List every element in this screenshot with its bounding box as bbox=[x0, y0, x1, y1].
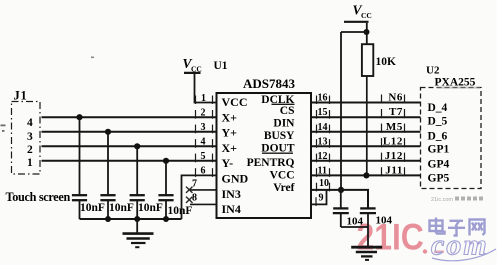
svg-text:DIN: DIN bbox=[273, 117, 295, 129]
svg-text:VCC: VCC bbox=[270, 169, 295, 181]
wire J1.4 to U1 pin2 (X+) bbox=[42, 116, 217, 118]
net label tick marks near U2 bbox=[382, 95, 405, 177]
svg-text:GP5: GP5 bbox=[428, 173, 450, 185]
wire U1.12 DOUT to U2 bbox=[311, 160, 421, 162]
svg-text:J1: J1 bbox=[14, 89, 28, 103]
svg-text:J12: J12 bbox=[385, 150, 403, 162]
svg-text:IN4: IN4 bbox=[222, 202, 241, 216]
junction dot wire1/C4 bbox=[163, 158, 169, 164]
scan speck bbox=[91, 57, 94, 59]
ground symbol left bbox=[123, 219, 154, 247]
svg-text:GP4: GP4 bbox=[428, 159, 450, 171]
svg-text:Touch screen: Touch screen bbox=[6, 190, 71, 204]
svg-text:T7: T7 bbox=[389, 106, 403, 118]
ground symbol right bbox=[351, 247, 382, 260]
svg-text:VCC: VCC bbox=[222, 95, 248, 109]
svg-text:N6: N6 bbox=[388, 92, 403, 104]
capacitor C5 104 bbox=[333, 190, 349, 227]
capacitor C3 10nF bbox=[130, 146, 145, 219]
svg-text:104: 104 bbox=[347, 216, 364, 228]
svg-text:5: 5 bbox=[201, 151, 206, 162]
wire U1.14 DIN to U2 bbox=[311, 131, 421, 133]
svg-text:14: 14 bbox=[318, 122, 328, 133]
op chip U1 ADS7843 box bbox=[217, 93, 312, 218]
svg-text:GP1: GP1 bbox=[428, 144, 450, 156]
wire vertical VCC to pin10 bbox=[340, 32, 342, 190]
svg-text:4: 4 bbox=[27, 117, 33, 129]
svg-text:D_6: D_6 bbox=[428, 130, 448, 142]
wire VCC branch to left bbox=[341, 31, 367, 33]
wire U1 pin6 GND to rail bbox=[182, 175, 217, 219]
watermark 网 character bbox=[470, 220, 485, 236]
svg-text:10nF: 10nF bbox=[80, 202, 105, 214]
wire U1.16 DCLK to U2 bbox=[311, 102, 421, 104]
svg-text:10nF: 10nF bbox=[138, 202, 163, 214]
capacitor C4 10nF bbox=[158, 161, 173, 219]
svg-text:10K: 10K bbox=[376, 56, 397, 68]
svg-text:21ic.com: 21ic.com bbox=[431, 197, 453, 203]
svg-text:M5: M5 bbox=[386, 121, 403, 133]
svg-text:11: 11 bbox=[318, 165, 327, 176]
stray scan mark left edge bbox=[1, 125, 6, 132]
svg-text:1: 1 bbox=[27, 157, 33, 169]
faint watermark echo under PXA255 bbox=[437, 87, 480, 89]
svg-text:CS: CS bbox=[280, 105, 295, 117]
svg-text:IN3: IN3 bbox=[222, 187, 241, 201]
wire VCC to U1 pin1 bbox=[195, 74, 217, 103]
connector J1 dashed box bbox=[12, 102, 41, 175]
svg-text:104: 104 bbox=[376, 215, 393, 227]
U1 right pin number ticks bbox=[316, 96, 330, 206]
svg-text:J11: J11 bbox=[385, 164, 403, 176]
junction dot wire4/C1 bbox=[76, 114, 82, 120]
wire J1.1 to U1 pin5 (Y-) bbox=[42, 160, 217, 162]
rail junction dot 1 bbox=[105, 216, 111, 222]
rail junction dot 2 bbox=[134, 216, 140, 222]
svg-text:13: 13 bbox=[318, 136, 328, 147]
svg-text:Y+: Y+ bbox=[222, 126, 238, 140]
svg-text:D_4: D_4 bbox=[428, 102, 448, 114]
capacitor C1 10nF bbox=[72, 117, 87, 219]
svg-text:3: 3 bbox=[27, 131, 33, 143]
watermark 子 character bbox=[448, 221, 465, 236]
svg-text:4: 4 bbox=[201, 137, 206, 148]
svg-text:10nF: 10nF bbox=[168, 205, 193, 217]
svg-text:8: 8 bbox=[192, 193, 197, 204]
junction dot VCC line / pin10 wire bbox=[338, 187, 344, 193]
power VCC left symbol bbox=[183, 56, 202, 74]
svg-text:D_5: D_5 bbox=[428, 116, 448, 128]
wire U1.10 VCC bbox=[311, 190, 368, 209]
svg-text:ADS7843: ADS7843 bbox=[243, 76, 296, 91]
chip U2 PXA255 dashed box bbox=[421, 88, 482, 189]
svg-text:X+: X+ bbox=[222, 110, 238, 124]
resistor R1 10K bbox=[362, 44, 373, 76]
wire resistor bottom to pin11 bbox=[366, 76, 368, 175]
wire cap bottoms link bbox=[341, 226, 368, 228]
watermark .com script bbox=[423, 249, 427, 253]
svg-text:Vref: Vref bbox=[273, 182, 294, 194]
svg-text:PENTRQ: PENTRQ bbox=[247, 157, 295, 169]
svg-text:6: 6 bbox=[201, 166, 206, 177]
svg-text:X+: X+ bbox=[222, 141, 238, 155]
junction dot wire2/C3 bbox=[134, 143, 140, 149]
svg-text:3: 3 bbox=[201, 122, 206, 133]
junction dot VCC branch bbox=[364, 29, 370, 35]
watermark 电 character bbox=[430, 218, 445, 234]
wire U1.13 BUSY to U2 bbox=[311, 145, 421, 147]
svg-text:Y-: Y- bbox=[222, 156, 234, 170]
wire J1.3 to U1 pin3 (Y+) bbox=[42, 131, 217, 133]
U1 left pin number ticks bbox=[196, 96, 213, 177]
svg-text:BUSY: BUSY bbox=[264, 130, 295, 142]
wire U1.9 Vref tie to VCC bbox=[311, 190, 327, 205]
ground rail wire bbox=[80, 218, 182, 220]
svg-text:U2: U2 bbox=[426, 65, 440, 77]
svg-text:7: 7 bbox=[192, 179, 197, 190]
svg-text:L12: L12 bbox=[383, 135, 403, 147]
rail junction dot 3 bbox=[163, 216, 169, 222]
junction dot wire3/C2 bbox=[105, 129, 111, 135]
U1 pin8 IN4 stub with no-connect X bbox=[190, 203, 217, 205]
svg-text:U1: U1 bbox=[214, 60, 228, 72]
capacitor C6 104 bbox=[360, 208, 376, 247]
svg-text:GND: GND bbox=[222, 172, 249, 186]
svg-text:15: 15 bbox=[318, 107, 328, 118]
svg-text:2: 2 bbox=[27, 144, 33, 156]
U1 pin7 IN3 stub with no-connect X bbox=[190, 189, 217, 191]
svg-text:2: 2 bbox=[201, 108, 206, 119]
svg-text:16: 16 bbox=[318, 93, 328, 104]
wire U1.15 CS to U2 bbox=[311, 116, 421, 118]
svg-text:9: 9 bbox=[319, 192, 324, 203]
wire U1.11 PENTRQ to U2 bbox=[311, 174, 421, 176]
svg-text:10nF: 10nF bbox=[109, 202, 134, 214]
svg-text:12: 12 bbox=[318, 151, 328, 162]
power VCC right symbol bbox=[344, 3, 372, 22]
svg-text:1: 1 bbox=[201, 93, 206, 104]
junction dot resistor / pin11 wire bbox=[363, 172, 369, 178]
wire J1.2 to U1 pin4 (X+) bbox=[42, 145, 217, 147]
svg-text:CC: CC bbox=[361, 11, 372, 20]
capacitor C2 10nF bbox=[100, 132, 115, 219]
svg-text:10: 10 bbox=[319, 178, 329, 189]
wire VCC stem bbox=[366, 23, 368, 45]
